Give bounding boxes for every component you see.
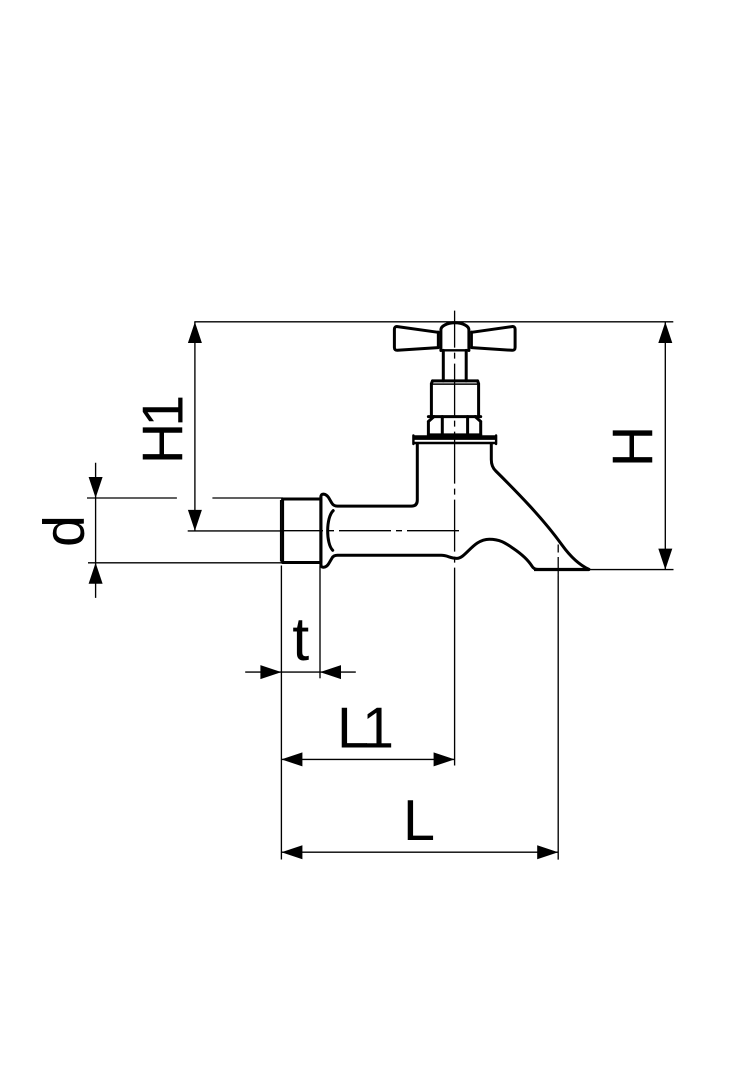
svg-text:H1: H1 bbox=[132, 397, 196, 465]
svg-text:L1: L1 bbox=[337, 697, 392, 761]
svg-text:t: t bbox=[292, 605, 309, 673]
svg-text:L: L bbox=[403, 789, 435, 853]
svg-text:d: d bbox=[33, 515, 97, 547]
svg-text:H: H bbox=[602, 426, 666, 468]
